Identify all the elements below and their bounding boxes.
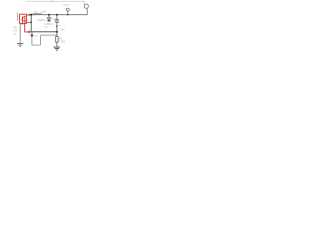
junction node B xyxy=(48,14,50,16)
red net wire from U1 xyxy=(25,23,32,33)
wire main horizontal net xyxy=(29,14,87,16)
junction C1 bottom xyxy=(56,25,58,27)
svg-text:USBLC: USBLC xyxy=(37,18,46,22)
wire U1 gnd pin down xyxy=(19,23,21,43)
resistor R1 xyxy=(56,32,66,47)
wire U1 pin2 to node xyxy=(29,21,31,23)
ground left xyxy=(17,43,23,46)
junction node C xyxy=(56,14,58,16)
svg-text:IN: IN xyxy=(14,32,17,36)
svg-text:40V: 40V xyxy=(44,26,49,29)
wire vertical from node A xyxy=(30,15,32,32)
svg-text:VBUS: VBUS xyxy=(63,3,71,7)
svg-text:C84: C84 xyxy=(60,28,65,31)
capacitor C1 xyxy=(55,16,61,32)
junction node D xyxy=(67,14,69,16)
svg-text:1uH: 1uH xyxy=(41,10,47,14)
wire horizontal mid net xyxy=(31,31,57,33)
wire dark segment at U1 output xyxy=(29,14,32,16)
IC U1 highlighted xyxy=(18,13,29,25)
diode D1 xyxy=(47,16,50,23)
junction pin2 xyxy=(30,21,32,23)
connector J1 xyxy=(83,1,88,14)
svg-text:L1: L1 xyxy=(34,10,38,14)
node VBUS test point xyxy=(63,3,71,15)
junction node A xyxy=(30,14,32,16)
wire routed net xyxy=(32,35,57,45)
ground mid xyxy=(53,47,60,50)
svg-text:+: + xyxy=(58,23,60,27)
svg-text:7.68K: 7.68K xyxy=(59,40,66,43)
wire top cropped net xyxy=(27,0,84,2)
junction node E xyxy=(56,31,58,33)
inductor L1 xyxy=(33,10,46,15)
ground arrow mid xyxy=(30,32,38,38)
